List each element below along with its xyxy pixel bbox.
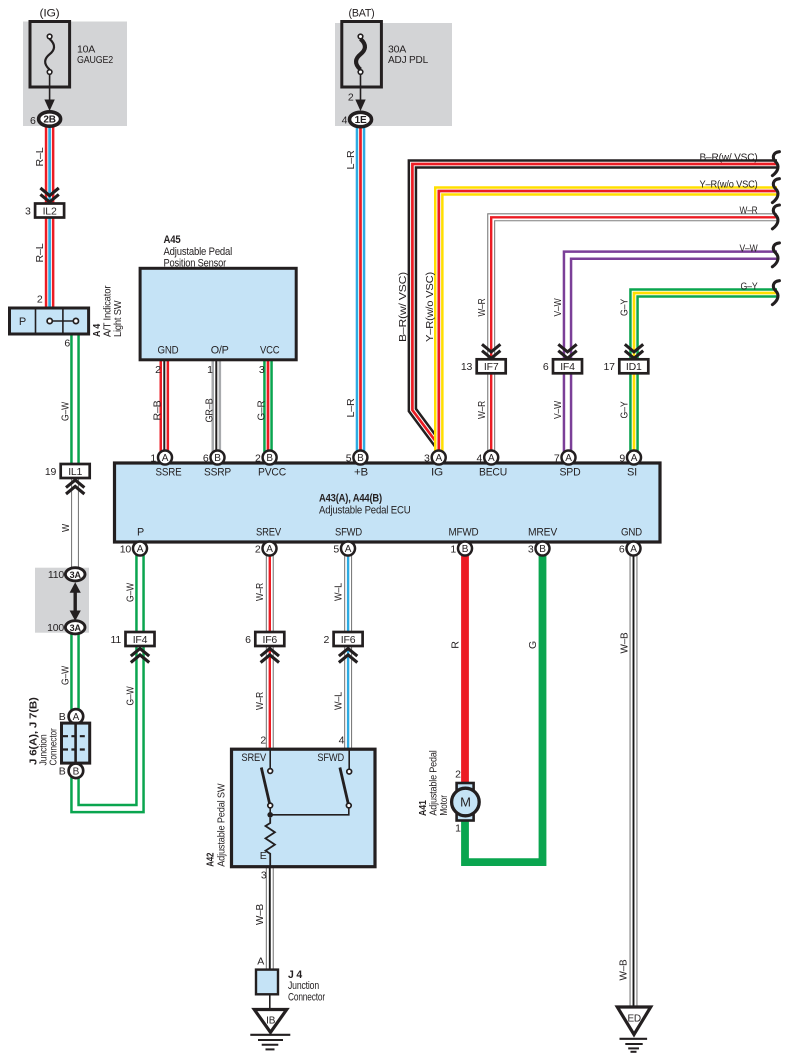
chevron arrows out of IF6 (SFWD) xyxy=(339,649,357,657)
svg-text:GAUGE2: GAUGE2 xyxy=(77,54,113,66)
svg-text:ADJ PDL: ADJ PDL xyxy=(388,54,428,66)
svg-text:IF6: IF6 xyxy=(263,634,278,646)
svg-text:IL1: IL1 xyxy=(68,466,82,478)
svg-text:2: 2 xyxy=(260,735,266,747)
svg-text:SSRE: SSRE xyxy=(156,467,182,479)
svg-text:SFWD: SFWD xyxy=(335,527,362,539)
ECU pin 2(A) SREV xyxy=(263,542,277,556)
svg-text:W–R: W–R xyxy=(254,692,266,710)
wire W-B from ECU GND to ED ground xyxy=(630,554,638,1008)
ECU pin 1(A) SSRE xyxy=(158,451,172,465)
svg-text:IF4: IF4 xyxy=(133,634,148,646)
svg-text:PVCC: PVCC xyxy=(258,467,286,479)
svg-text:(BAT): (BAT) xyxy=(349,8,375,20)
wire continuation marks at right edge xyxy=(772,152,779,176)
svg-text:G–Y: G–Y xyxy=(741,281,758,293)
svg-text:100: 100 xyxy=(47,622,64,634)
svg-text:2: 2 xyxy=(255,452,261,464)
wire B-R(w/ VSC) from right edge to ECU IG xyxy=(412,164,777,447)
ground symbol below IB xyxy=(250,1034,290,1036)
svg-text:10: 10 xyxy=(120,543,132,555)
svg-text:GR–B: GR–B xyxy=(204,398,216,422)
wire W-R from right edge through IF7 to ECU BECU xyxy=(491,217,777,452)
svg-text:Connector: Connector xyxy=(48,728,60,766)
ECU pin 1(B) MFWD xyxy=(458,542,472,556)
svg-text:4: 4 xyxy=(339,735,345,747)
motor terminal rects xyxy=(457,783,474,790)
svg-text:R–L: R–L xyxy=(34,147,46,166)
ECU pin 3(A) IG xyxy=(432,451,446,465)
svg-text:5: 5 xyxy=(346,452,352,464)
connector 17 ID1 xyxy=(619,359,648,373)
chevron arrows out of IF4 xyxy=(131,649,149,657)
svg-text:G–Y: G–Y xyxy=(618,401,630,418)
svg-text:W–B: W–B xyxy=(254,904,266,925)
svg-text:6: 6 xyxy=(245,634,251,646)
svg-text:GND: GND xyxy=(158,345,179,357)
svg-text:SFWD: SFWD xyxy=(317,752,344,764)
svg-text:BECU: BECU xyxy=(479,467,507,479)
svg-text:3: 3 xyxy=(424,452,430,464)
svg-text:V–W: V–W xyxy=(552,401,564,419)
svg-text:SREV: SREV xyxy=(256,527,282,539)
svg-text:B: B xyxy=(59,711,66,723)
svg-text:A: A xyxy=(630,544,637,555)
wire GR-B from A45 O/P to ECU SSRP xyxy=(212,359,222,452)
svg-text:ED: ED xyxy=(627,1013,641,1024)
svg-text:B: B xyxy=(59,766,66,778)
svg-text:IL2: IL2 xyxy=(43,205,57,217)
link from SREV to SFWD contact xyxy=(270,808,349,815)
svg-text:R: R xyxy=(449,641,461,649)
svg-text:V–W: V–W xyxy=(552,298,564,316)
svg-text:B: B xyxy=(214,453,221,464)
wire R-B from A45 GND to ECU SSRE xyxy=(160,359,170,452)
svg-text:SSRP: SSRP xyxy=(204,467,231,479)
svg-text:7: 7 xyxy=(554,452,560,464)
resistor in A42 xyxy=(266,818,275,867)
svg-text:1: 1 xyxy=(207,364,213,376)
svg-text:A43(A), A44(B): A43(A), A44(B) xyxy=(319,493,382,505)
svg-text:L–R: L–R xyxy=(345,150,357,170)
svg-text:1: 1 xyxy=(450,543,456,555)
svg-text:E: E xyxy=(260,850,267,862)
wire W from IL1 to connector 110 3A xyxy=(71,477,79,570)
relay block shaded box (BAT fuse) xyxy=(335,23,452,126)
svg-text:W–R: W–R xyxy=(740,205,758,217)
shaded box around 3A connector pair xyxy=(35,568,89,633)
ECU pin 4(A) BECU xyxy=(484,451,498,465)
svg-text:6: 6 xyxy=(64,337,70,349)
ECU pin 2(B) PVCC xyxy=(263,451,277,465)
wire R-L from fuse 2B to A4 pin 2 xyxy=(45,126,55,309)
svg-text:A: A xyxy=(162,453,169,464)
svg-text:P: P xyxy=(19,316,26,328)
junction dot in A42 xyxy=(267,812,273,818)
wire L-R from fuse 1E to ECU +B xyxy=(356,126,366,452)
connector 2 IF6 xyxy=(334,632,363,646)
svg-text:4: 4 xyxy=(477,452,483,464)
svg-text:IF6: IF6 xyxy=(341,634,356,646)
svg-text:3: 3 xyxy=(528,543,534,555)
svg-text:A: A xyxy=(257,956,264,968)
svg-text:A: A xyxy=(435,453,442,464)
svg-text:A: A xyxy=(565,453,572,464)
ECU pin 9(A) SI xyxy=(627,451,641,465)
svg-text:G–Y: G–Y xyxy=(618,299,630,316)
wire W-R from ECU SREV through IF6 to A42 SREV xyxy=(266,554,274,751)
svg-text:G–W: G–W xyxy=(59,666,71,685)
wire Y-R(w/o VSC) from right edge to ECU IG xyxy=(439,191,777,452)
svg-text:W–R: W–R xyxy=(254,583,266,601)
svg-text:W–B: W–B xyxy=(618,959,630,980)
connector 19 IL1 xyxy=(61,464,90,478)
connector 6 2B xyxy=(39,112,61,126)
svg-text:MREV: MREV xyxy=(528,527,558,539)
svg-text:1: 1 xyxy=(150,452,156,464)
svg-text:2: 2 xyxy=(348,92,354,104)
chevron arrows into IF7 xyxy=(482,344,500,352)
relay block shaded box (IG fuse) xyxy=(23,22,127,127)
svg-text:W: W xyxy=(60,524,72,532)
svg-text:B: B xyxy=(357,453,364,464)
ground symbol below ED xyxy=(620,1038,648,1040)
svg-text:110: 110 xyxy=(48,569,64,581)
svg-text:IF4: IF4 xyxy=(560,361,575,373)
svg-text:IB: IB xyxy=(266,1015,276,1026)
J6/J7 junction connector pin A xyxy=(69,709,84,724)
svg-text:W–L: W–L xyxy=(332,692,344,710)
svg-text:17: 17 xyxy=(604,361,616,373)
svg-text:B–R(w/ VSC): B–R(w/ VSC) xyxy=(700,152,758,164)
svg-text:Y–R(w/o VSC): Y–R(w/o VSC) xyxy=(700,179,758,191)
svg-text:2: 2 xyxy=(255,543,261,555)
wire W-B from A42 pin 3 to J4 junction connector xyxy=(266,866,274,971)
svg-text:6: 6 xyxy=(203,452,209,464)
svg-text:ID1: ID1 xyxy=(626,361,642,373)
svg-text:B: B xyxy=(462,544,469,555)
svg-text:GND: GND xyxy=(621,527,642,539)
svg-text:W–R: W–R xyxy=(476,298,488,316)
svg-text:R–B: R–B xyxy=(152,400,164,420)
svg-text:A: A xyxy=(631,453,638,464)
svg-text:SPD: SPD xyxy=(560,467,581,479)
switch contact in A4 xyxy=(52,320,73,322)
connector 13 IF7 xyxy=(477,359,506,373)
wire G-W from connector 100 3A to J6 pin A xyxy=(70,633,80,711)
svg-text:SREV: SREV xyxy=(241,752,266,764)
svg-text:A45: A45 xyxy=(164,234,181,246)
connector 6 IF6 xyxy=(255,632,284,646)
svg-text:Motor: Motor xyxy=(438,795,450,816)
svg-text:B: B xyxy=(266,453,273,464)
adjustable pedal switch A42 box xyxy=(232,749,376,867)
lead from fuse to connector 1E with arrowhead xyxy=(360,75,362,102)
svg-text:3: 3 xyxy=(261,870,267,882)
connector 6 IF4 xyxy=(553,359,582,373)
wire R from ECU MFWD to motor terminal 2 xyxy=(461,554,469,785)
wire G from ECU MREV to motor terminal 1 xyxy=(465,554,543,862)
svg-text:G–W: G–W xyxy=(59,402,71,421)
svg-text:IF7: IF7 xyxy=(484,361,499,373)
svg-text:Position Sensor: Position Sensor xyxy=(164,258,227,270)
chevron arrows into IF4 xyxy=(558,344,576,352)
junction connector J6(A) J7(B) box xyxy=(62,723,90,763)
wire G-R from A45 VCC to ECU PVCC xyxy=(263,359,273,452)
connector 4 1E xyxy=(350,112,372,126)
adjustable pedal ECU A43(A) A44(B) box xyxy=(115,463,661,542)
fuse 10A GAUGE2 (IG) xyxy=(30,22,70,88)
wire G-Y from right edge through ID1 to ECU SI xyxy=(634,293,777,452)
ECU pin 6(A) GND xyxy=(627,542,641,556)
svg-text:SI: SI xyxy=(627,467,637,479)
svg-text:19: 19 xyxy=(45,466,57,478)
wire G-W from A4 pin 6 to IL1 xyxy=(70,333,80,466)
svg-text:A: A xyxy=(73,712,80,723)
svg-text:VCC: VCC xyxy=(260,345,280,357)
svg-text:2: 2 xyxy=(323,634,329,646)
svg-text:M: M xyxy=(460,795,471,810)
fuse 30A ADJ PDL (BAT) xyxy=(342,22,382,88)
ECU pin 3(B) MREV xyxy=(536,542,550,556)
svg-text:O/P: O/P xyxy=(211,345,229,357)
SFWD switch contact xyxy=(348,749,350,769)
svg-text:5: 5 xyxy=(333,543,339,555)
ECU pin 5(B) +B xyxy=(353,451,367,465)
ECU pin 5(A) SFWD xyxy=(341,542,355,556)
svg-text:3: 3 xyxy=(25,205,31,217)
svg-text:L–R: L–R xyxy=(345,398,357,418)
svg-text:B–R(w/ VSC): B–R(w/ VSC) xyxy=(397,272,409,342)
SREV switch contact xyxy=(269,749,271,769)
double arrow between 3A connectors xyxy=(73,589,76,614)
chevron arrows out of IF6 (SREV) xyxy=(261,649,279,657)
chevron arrows into ID1 xyxy=(625,344,643,352)
ECU pin 10(A) P xyxy=(133,542,147,556)
svg-text:6: 6 xyxy=(30,115,36,127)
lead from fuse to connector 2B with arrowhead xyxy=(49,75,51,102)
svg-text:Adjustable Pedal SW: Adjustable Pedal SW xyxy=(216,783,228,866)
junction connector J4 box xyxy=(256,970,278,995)
svg-text:R–L: R–L xyxy=(34,243,46,262)
svg-text:3A: 3A xyxy=(70,623,82,633)
svg-text:6: 6 xyxy=(619,543,625,555)
svg-text:Y–R(w/o VSC): Y–R(w/o VSC) xyxy=(424,272,436,342)
svg-text:2: 2 xyxy=(155,364,161,376)
svg-text:G–W: G–W xyxy=(124,583,136,602)
svg-text:3A: 3A xyxy=(70,570,82,580)
chevron arrows out of IL1 xyxy=(66,480,84,488)
svg-text:2B: 2B xyxy=(43,115,55,126)
svg-text:1: 1 xyxy=(455,823,461,835)
connector 3 IL2 xyxy=(35,204,64,218)
connector 110 3A xyxy=(65,568,85,581)
lead from J4 to IB ground xyxy=(269,994,271,1010)
svg-text:G–R: G–R xyxy=(255,400,267,421)
svg-text:9: 9 xyxy=(619,452,625,464)
adjustable pedal motor A41 xyxy=(452,788,480,816)
svg-text:V–W: V–W xyxy=(740,243,758,255)
svg-text:P: P xyxy=(137,527,144,539)
svg-text:W–L: W–L xyxy=(332,583,344,601)
svg-text:Adjustable Pedal: Adjustable Pedal xyxy=(164,246,233,258)
svg-text:W–R: W–R xyxy=(476,401,488,419)
wire G-W from ECU P pin through IF4 down and around to J6 pin B xyxy=(75,554,140,809)
svg-text:W–B: W–B xyxy=(619,632,631,653)
svg-text:(IG): (IG) xyxy=(40,8,60,20)
svg-text:IG: IG xyxy=(431,467,443,479)
ground IB triangle xyxy=(254,1010,286,1033)
J6/J7 junction connector pin B xyxy=(69,764,84,779)
A/T indicator light switch A4 box xyxy=(10,308,89,334)
chevron arrows into IL2 xyxy=(40,188,58,196)
svg-text:Adjustable Pedal ECU: Adjustable Pedal ECU xyxy=(319,505,411,517)
svg-text:A: A xyxy=(488,453,495,464)
svg-text:B: B xyxy=(539,544,546,555)
svg-text:G–W: G–W xyxy=(124,686,136,705)
svg-text:2: 2 xyxy=(37,294,43,306)
svg-text:6: 6 xyxy=(543,361,549,373)
svg-text:A: A xyxy=(345,544,352,555)
svg-text:+B: +B xyxy=(354,467,368,479)
svg-text:2: 2 xyxy=(455,769,461,781)
svg-text:3: 3 xyxy=(259,364,265,376)
wire W-L from ECU SFWD through IF6 to A42 SFWD xyxy=(344,554,352,751)
svg-text:Connector: Connector xyxy=(288,992,325,1004)
svg-text:G: G xyxy=(527,641,539,649)
wire V-W from right edge through IF4 to ECU SPD xyxy=(568,255,778,452)
ECU pin 7(A) SPD xyxy=(562,451,576,465)
svg-text:A: A xyxy=(266,544,273,555)
connector 11 IF4 xyxy=(126,632,155,646)
svg-text:A: A xyxy=(137,544,144,555)
ground ED triangle xyxy=(617,1007,650,1035)
svg-text:13: 13 xyxy=(461,361,473,373)
svg-text:Junction: Junction xyxy=(288,980,319,992)
connector 100 3A xyxy=(65,621,85,634)
svg-text:4: 4 xyxy=(342,114,348,126)
svg-text:B: B xyxy=(73,766,80,777)
svg-text:11: 11 xyxy=(111,634,122,646)
svg-text:MFWD: MFWD xyxy=(449,527,479,539)
svg-text:Light SW: Light SW xyxy=(112,300,124,337)
svg-text:1E: 1E xyxy=(355,115,367,126)
ECU pin 6(B) SSRP xyxy=(211,451,225,465)
adjustable pedal position sensor A45 box xyxy=(140,268,296,360)
